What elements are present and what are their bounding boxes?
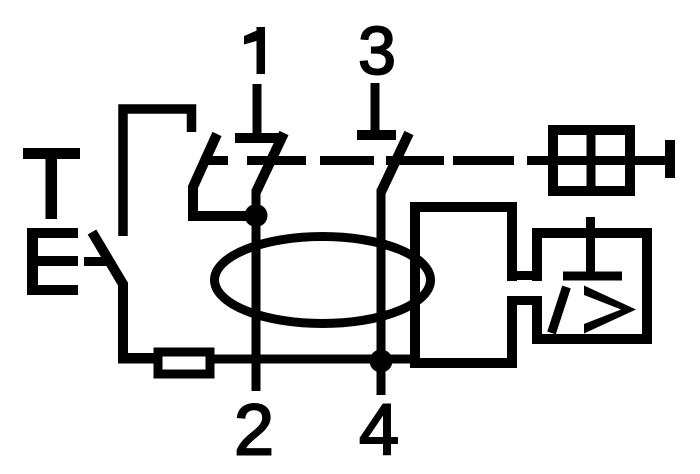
terminal 3 lead	[371, 83, 380, 136]
pole 1 fixed contact seat	[235, 133, 280, 143]
wire from push-button to test contact blade	[84, 257, 111, 266]
trip relay box	[537, 233, 647, 339]
test contact blade (lower, normally open)	[92, 232, 124, 285]
wire from test blade down to resistor	[123, 282, 155, 358]
relay label greater-than	[584, 286, 636, 334]
pole 2 conductor (through CT ring to terminal 4)	[377, 189, 386, 395]
mechanical linkage dashed line	[247, 156, 514, 165]
relay label I (italic)	[552, 287, 567, 333]
node A junction dot	[245, 204, 268, 227]
test contact blade (upper) with wire to node A	[193, 134, 252, 216]
manual actuator grid symbol	[553, 130, 630, 191]
mechanical line through grid to handle	[527, 156, 668, 165]
connector gap between blocks	[504, 281, 546, 296]
connector bar lower	[508, 296, 542, 305]
push-button actuator E (test button head)	[27, 228, 78, 295]
terminal 1 lead	[253, 84, 262, 138]
bottom wire (terminal 2/4 rail to sensing block)	[118, 355, 417, 364]
resistor R (test resistor)	[158, 352, 210, 374]
terminal label 1	[244, 27, 265, 74]
pole 2 switch blade	[381, 133, 409, 192]
node B junction dot	[370, 350, 393, 373]
svg-text:2: 2	[234, 391, 274, 471]
wire: gamma-shaped test-circuit conductor (upper fixed contact)	[123, 109, 192, 236]
CT toroid core (ellipse)	[215, 237, 431, 324]
svg-text:4: 4	[359, 391, 399, 471]
connector bar upper	[508, 271, 542, 280]
mechanical linkage dash on upper test blade	[205, 156, 228, 165]
trip relay armature plate	[563, 272, 622, 281]
label T (test button)	[23, 148, 80, 219]
handle end bar	[665, 140, 675, 178]
sensing block (current transformer secondary box)	[415, 207, 512, 363]
pole 1 conductor (through CT ring to terminal 2)	[252, 189, 261, 391]
pole 1 switch blade	[256, 133, 284, 192]
svg-text:3: 3	[358, 13, 396, 89]
trip relay armature stub	[586, 217, 595, 276]
pole 2 fixed contact seat	[357, 130, 396, 140]
